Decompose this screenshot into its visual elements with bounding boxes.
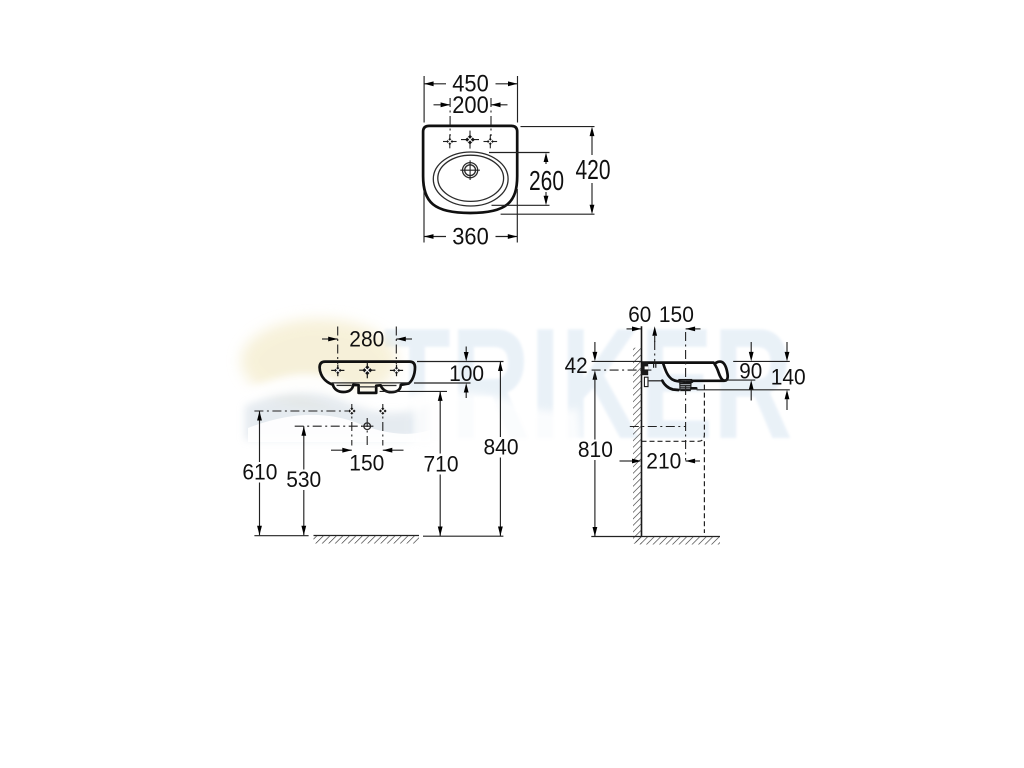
dim 420 [501, 127, 611, 215]
back bracket [644, 377, 648, 386]
svg-text:150: 150 [349, 451, 384, 476]
svg-text:710: 710 [424, 452, 459, 477]
dim 150 (front) [331, 448, 404, 476]
side view [565, 302, 806, 545]
wall edge [641, 326, 643, 536]
dim 710 [380, 391, 459, 536]
bowl inner oval [438, 155, 504, 201]
dim 210 [620, 449, 701, 474]
lower axis line [630, 426, 686, 428]
mount hole left [348, 407, 356, 415]
dim 530 [286, 426, 321, 535]
body bottom line [332, 382, 410, 384]
dim 200 [434, 92, 508, 136]
svg-text:530: 530 [286, 467, 321, 492]
dim 810 [578, 373, 613, 537]
dim 140 [697, 342, 806, 410]
drain stack [678, 380, 693, 391]
svg-text:610: 610 [242, 460, 277, 485]
tap hole centre [461, 131, 479, 149]
dim 450 [424, 71, 517, 123]
drain hole (front) [361, 423, 373, 430]
tap hole centre (front) [359, 362, 375, 378]
dim 260 [489, 153, 564, 206]
drain crosshair [460, 160, 480, 180]
axis 150 [685, 332, 687, 460]
axis 60 [652, 326, 657, 362]
svg-text:280: 280 [349, 327, 384, 352]
floor hatch (side) [636, 537, 720, 545]
floor line (side) [591, 536, 720, 538]
floor line (front) [254, 535, 308, 537]
basin body (front elevation) [320, 362, 415, 393]
bowl outer oval [433, 152, 508, 206]
top view [423, 71, 610, 251]
dim 100 [414, 347, 504, 399]
tap hole left (front) [331, 365, 344, 377]
hidden siphon outline [642, 383, 705, 442]
floor hatch (front) [314, 536, 420, 544]
tap hole section at 60 [653, 363, 655, 368]
back under-deck line [649, 380, 663, 382]
front view [242, 327, 518, 544]
wall hatch [633, 348, 642, 544]
svg-text:420: 420 [576, 154, 611, 185]
wall-mount hole axes [254, 410, 348, 412]
svg-text:60: 60 [628, 302, 651, 327]
dim 42 [565, 342, 598, 380]
tap hole right [484, 135, 498, 149]
back wall section [642, 362, 648, 375]
svg-text:150: 150 [659, 302, 694, 327]
dim 280 [322, 327, 412, 365]
svg-text:90: 90 [739, 358, 762, 383]
svg-text:360: 360 [452, 223, 489, 250]
svg-text:42: 42 [565, 353, 588, 378]
svg-text:260: 260 [529, 165, 564, 196]
svg-text:140: 140 [771, 364, 806, 389]
dim 90 [725, 342, 789, 401]
dim 840 [484, 362, 519, 537]
watermark yellow swirl [241, 319, 397, 403]
deck underside [692, 379, 724, 382]
under-bowl [662, 381, 678, 390]
underside stub [692, 387, 697, 390]
fixing axis line [592, 369, 652, 371]
svg-text:200: 200 [452, 92, 489, 119]
bump inner lines [337, 384, 352, 386]
dim 610 [242, 411, 277, 535]
basin outline (plan) [423, 126, 517, 213]
svg-text:810: 810 [578, 437, 613, 462]
dim 360 [424, 189, 517, 250]
front rim profile [715, 362, 728, 381]
watermark [241, 296, 793, 472]
bowl section [663, 363, 692, 382]
svg-text:210: 210 [646, 449, 681, 474]
basin deck (side) [643, 361, 714, 364]
svg-text:840: 840 [484, 435, 519, 460]
tap hole left [443, 135, 457, 149]
tap hole right (front) [390, 365, 403, 377]
svg-text:100: 100 [449, 361, 484, 386]
rim level line [592, 360, 642, 362]
mount hole right [379, 407, 387, 415]
